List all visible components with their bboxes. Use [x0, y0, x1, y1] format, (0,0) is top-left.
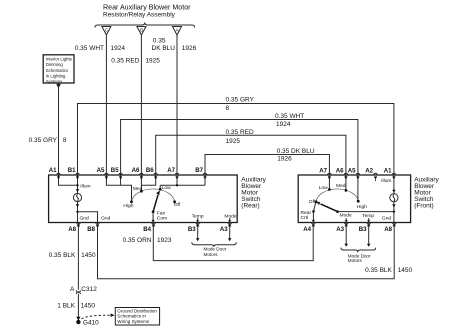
- svg-text:Med: Med: [133, 186, 143, 192]
- svg-text:in Lighting: in Lighting: [46, 74, 66, 79]
- svg-text:0.35 RED: 0.35 RED: [111, 58, 139, 65]
- svg-text:B5: B5: [111, 167, 119, 174]
- svg-text:G410: G410: [83, 320, 99, 327]
- svg-text:Ground Distribution: Ground Distribution: [117, 308, 157, 313]
- svg-text:B8: B8: [87, 226, 95, 233]
- svg-text:A6: A6: [132, 167, 140, 174]
- svg-text:1924: 1924: [111, 45, 126, 52]
- svg-text:C312: C312: [81, 286, 97, 293]
- svg-text:1450: 1450: [81, 252, 96, 259]
- svg-text:Low: Low: [319, 185, 328, 191]
- svg-text:0.35 WHT: 0.35 WHT: [275, 113, 304, 120]
- svg-text:0.35: 0.35: [153, 38, 166, 45]
- svg-text:A8: A8: [68, 226, 76, 233]
- svg-text:(Rear): (Rear): [241, 203, 259, 210]
- svg-text:0.35 ORN: 0.35 ORN: [123, 237, 152, 244]
- svg-text:Mode Door: Mode Door: [204, 247, 227, 252]
- svg-text:1925: 1925: [145, 58, 160, 65]
- svg-text:1 BLK: 1 BLK: [57, 303, 75, 310]
- svg-text:B7: B7: [195, 167, 203, 174]
- svg-text:DK BLU: DK BLU: [152, 45, 176, 52]
- svg-text:1926: 1926: [277, 156, 292, 163]
- svg-text:A7: A7: [319, 168, 327, 175]
- svg-text:Rear Auxiliary Blower Motor: Rear Auxiliary Blower Motor: [103, 3, 191, 11]
- svg-text:Med: Med: [336, 183, 346, 189]
- svg-text:Schematics: Schematics: [46, 68, 68, 73]
- svg-text:Resistor/Relay Assembly: Resistor/Relay Assembly: [103, 12, 176, 19]
- svg-text:B6: B6: [146, 167, 154, 174]
- svg-text:Illum: Illum: [80, 184, 90, 190]
- svg-text:B4: B4: [143, 226, 151, 233]
- svg-text:B3: B3: [359, 226, 367, 233]
- svg-text:B3: B3: [188, 226, 196, 233]
- svg-text:0.35 GRY: 0.35 GRY: [29, 137, 58, 144]
- svg-text:A8: A8: [384, 226, 392, 233]
- svg-text:Motors: Motors: [348, 258, 363, 263]
- svg-text:1925: 1925: [226, 138, 241, 145]
- svg-text:0.35 GRY: 0.35 GRY: [226, 97, 255, 104]
- svg-text:A3: A3: [336, 226, 344, 233]
- svg-text:1926: 1926: [182, 45, 197, 52]
- svg-text:Rear: Rear: [301, 210, 312, 216]
- svg-text:Wiring Systems: Wiring Systems: [117, 319, 150, 324]
- svg-text:0.35 DK BLU: 0.35 DK BLU: [277, 148, 315, 155]
- svg-text:Dimming: Dimming: [46, 62, 64, 67]
- svg-text:A: A: [70, 286, 75, 293]
- svg-text:A2: A2: [365, 168, 373, 175]
- svg-text:A1: A1: [384, 168, 392, 175]
- svg-text:B: B: [140, 28, 143, 33]
- svg-text:(Front): (Front): [414, 203, 434, 210]
- svg-text:High: High: [123, 203, 133, 209]
- svg-text:Off: Off: [174, 202, 181, 208]
- svg-text:Gnd: Gnd: [382, 215, 392, 221]
- svg-text:1924: 1924: [276, 121, 291, 128]
- svg-text:A5: A5: [97, 167, 105, 174]
- svg-text:8: 8: [226, 105, 230, 112]
- svg-text:B1: B1: [68, 167, 76, 174]
- svg-text:Mode: Mode: [224, 213, 237, 219]
- svg-text:High: High: [357, 204, 367, 210]
- svg-text:Crtl: Crtl: [301, 215, 309, 221]
- svg-text:1450: 1450: [81, 303, 96, 310]
- svg-text:8: 8: [63, 137, 67, 144]
- svg-text:A5: A5: [348, 168, 356, 175]
- svg-text:Motors: Motors: [204, 252, 219, 257]
- svg-text:A6: A6: [336, 168, 344, 175]
- svg-text:Schematics in: Schematics in: [117, 314, 146, 319]
- svg-text:0.35 RED: 0.35 RED: [226, 129, 254, 136]
- svg-text:Interior Lights: Interior Lights: [46, 56, 72, 61]
- svg-text:A1: A1: [49, 167, 57, 174]
- svg-text:0.35 BLK: 0.35 BLK: [49, 252, 76, 259]
- svg-text:Illum: Illum: [381, 178, 391, 184]
- svg-text:0.35 WHT: 0.35 WHT: [75, 45, 104, 52]
- svg-text:Mode: Mode: [340, 212, 353, 218]
- svg-text:Gnd: Gnd: [101, 215, 111, 221]
- svg-text:1923: 1923: [157, 237, 172, 244]
- svg-text:Systems: Systems: [46, 79, 62, 84]
- svg-text:Com: Com: [157, 215, 167, 221]
- svg-text:0.35 BLK: 0.35 BLK: [365, 267, 392, 274]
- svg-text:Gnd: Gnd: [80, 215, 90, 221]
- svg-text:A4: A4: [303, 226, 311, 233]
- svg-text:Low: Low: [162, 185, 171, 191]
- svg-text:Off: Off: [309, 199, 316, 205]
- svg-text:A7: A7: [167, 167, 175, 174]
- svg-text:1450: 1450: [398, 267, 413, 274]
- svg-text:A3: A3: [220, 226, 228, 233]
